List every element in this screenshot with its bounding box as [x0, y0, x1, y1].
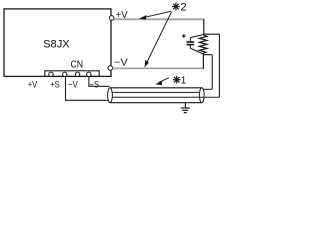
sense wire inside cable (upper) — [112, 91, 200, 93]
connector pin 3 (-V) — [75, 72, 79, 76]
wire: -S from CN pin down — [89, 76, 110, 86]
wire: inner sense vertical — [211, 55, 213, 90]
capacitor C top plate — [186, 41, 194, 43]
-V wire (gray) — [113, 67, 204, 69]
svg-text:2: 2 — [180, 2, 186, 14]
svg-text:+S: +S — [50, 79, 60, 90]
note *1 asterisk — [173, 76, 181, 84]
sense wire inside cable (lower) — [112, 96, 220, 98]
svg-text:S8JX: S8JX — [43, 39, 70, 51]
resistor R (load) — [199, 34, 207, 54]
capacitor top lead — [189, 38, 191, 42]
wire: load bottom node horizontal — [203, 54, 212, 56]
cable tube top edge — [110, 87, 202, 89]
svg-text:−V: −V — [68, 79, 78, 90]
svg-text:CN: CN — [71, 59, 84, 70]
arrow from *2 to -V wire — [146, 12, 171, 64]
+V output terminal — [109, 16, 114, 21]
+V wire (gray) — [114, 18, 204, 20]
-V output terminal — [108, 66, 113, 71]
connector pin 4 (-S) — [87, 72, 91, 76]
capacitor bottom lead — [189, 45, 191, 49]
connector pin 1 (+V) — [49, 72, 53, 76]
connector pin 2 (+S) — [63, 72, 67, 76]
ground — [184, 103, 186, 108]
svg-text:+V: +V — [28, 79, 38, 90]
svg-text:−S: −S — [90, 79, 100, 90]
svg-text:−V: −V — [114, 57, 128, 68]
wire: +V drop to load top node — [203, 19, 205, 35]
wire: load top node to +S sense corner — [203, 33, 219, 35]
svg-text:1: 1 — [181, 76, 187, 87]
capacitor C bottom plate — [186, 44, 194, 46]
wire: capacitor bottom diagonal to node — [190, 48, 203, 54]
cable right end ellipse — [199, 88, 204, 103]
wire: outer sense vertical — [218, 34, 220, 97]
cable left end ellipse — [108, 88, 113, 103]
cable tube bottom edge — [110, 102, 202, 104]
sense wire exit (upper right) — [203, 88, 212, 90]
arrow from *2 to +V wire — [143, 11, 172, 17]
wire: +S from CN pin down — [66, 76, 109, 100]
note *2 asterisk — [172, 3, 180, 11]
wire: capacitor top diagonal to node — [190, 34, 203, 37]
capacitor C (load) plus sign — [182, 35, 186, 37]
arrow from *1 to cable — [159, 78, 169, 83]
power supply box S8JX — [4, 9, 111, 77]
connector CN body — [45, 71, 99, 77]
wire: load bottom node to -V wire — [202, 54, 204, 69]
